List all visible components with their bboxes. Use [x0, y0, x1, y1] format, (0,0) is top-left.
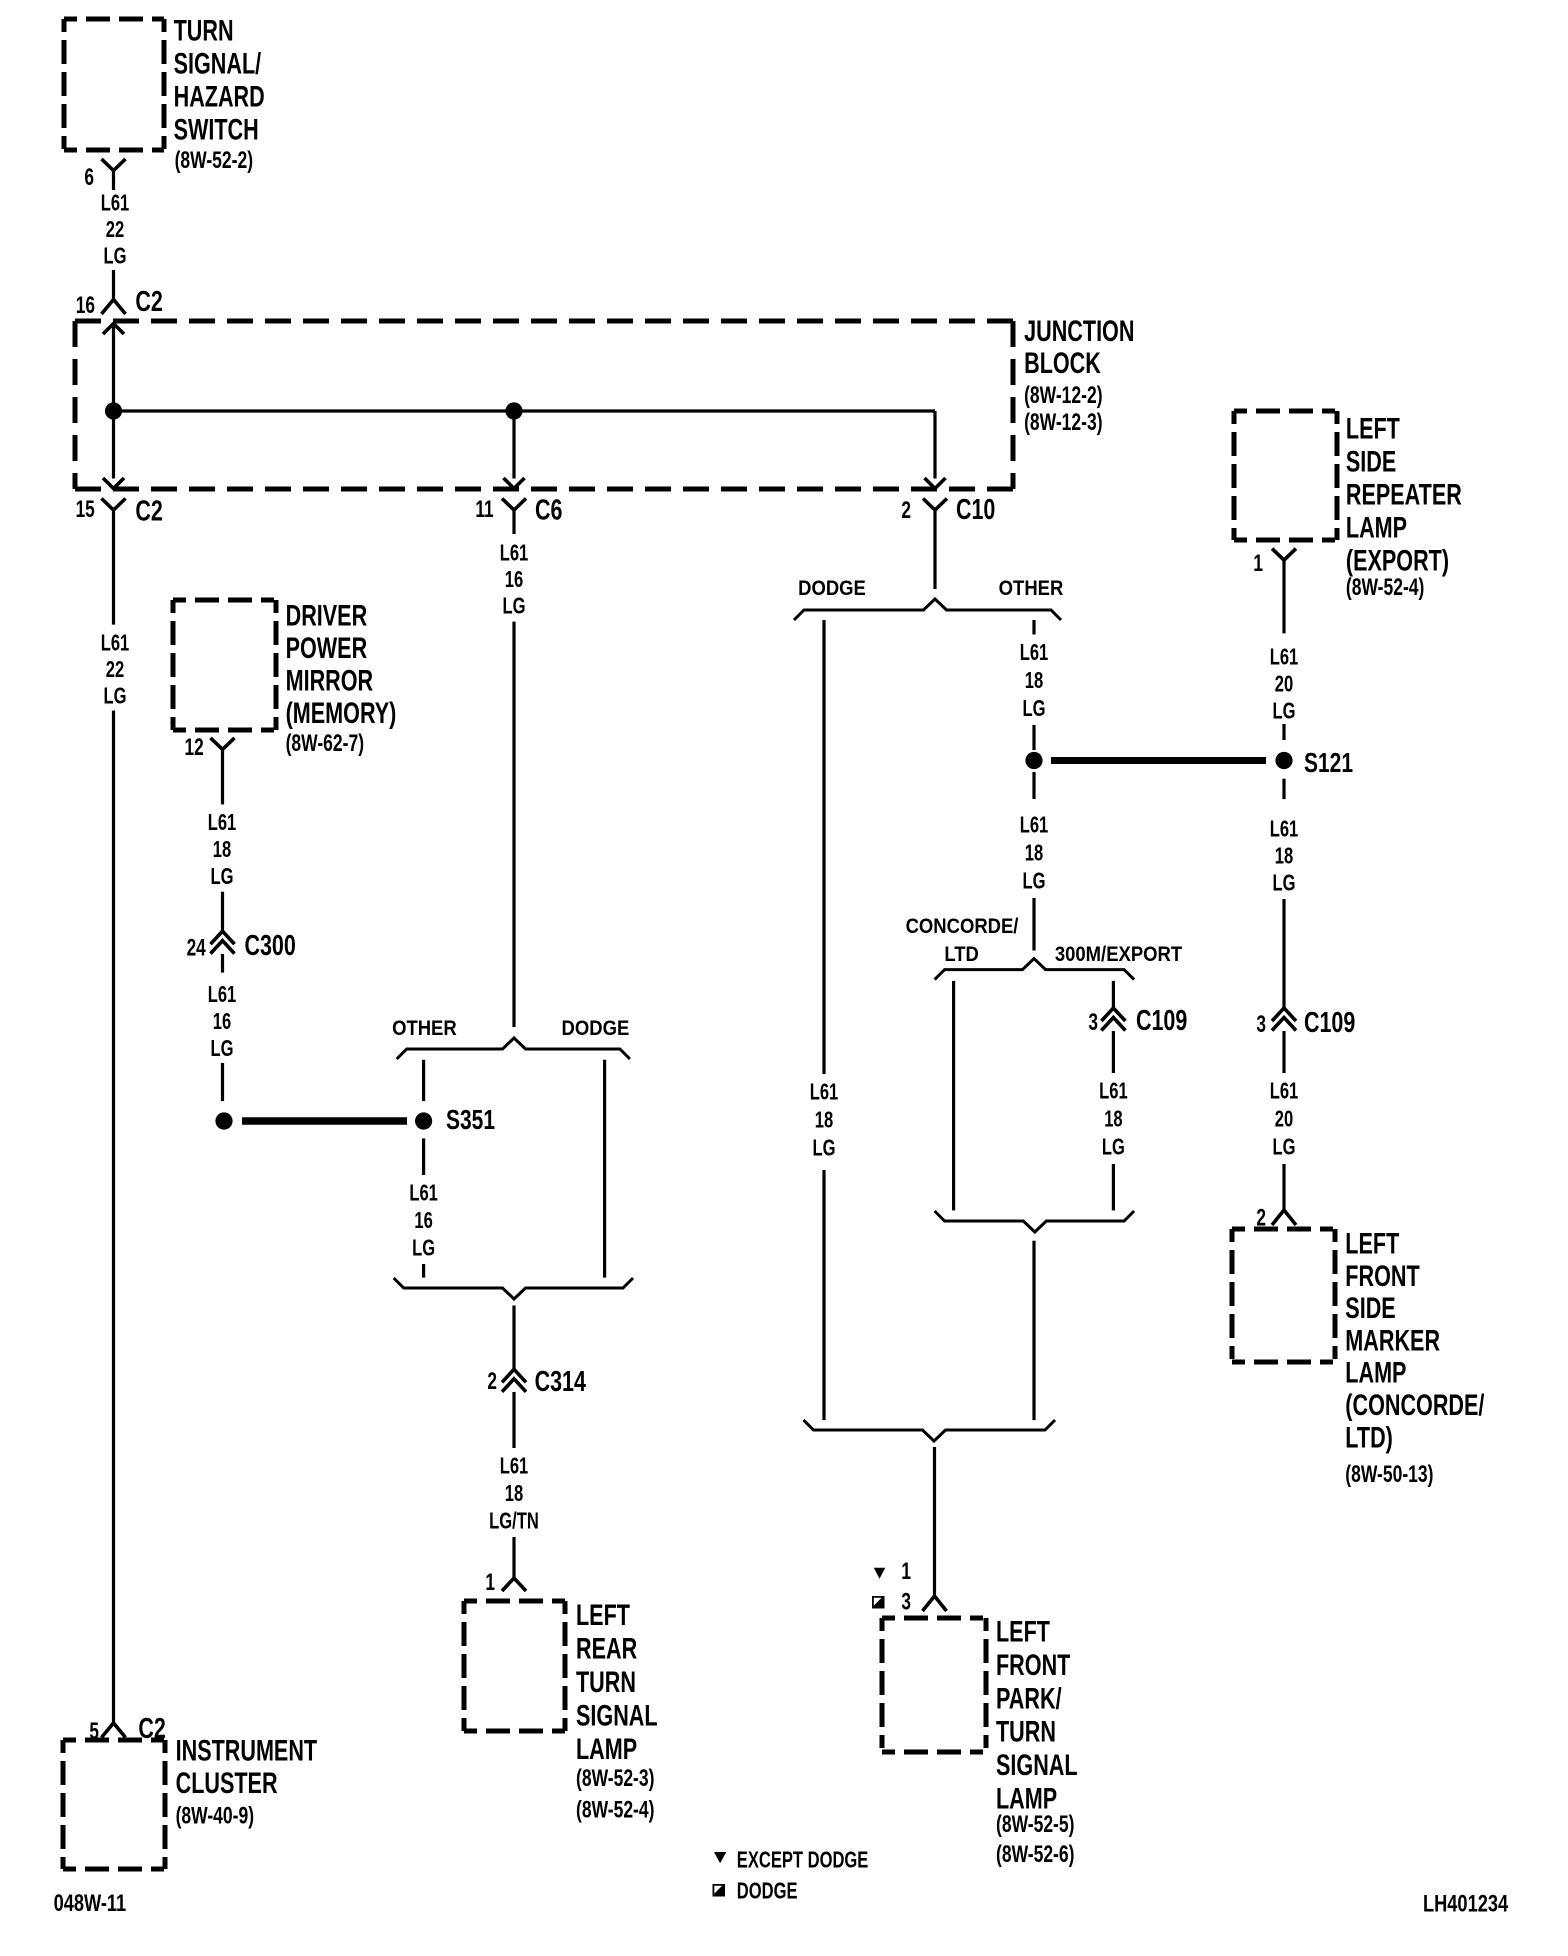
connector C314 pin 2 (double chevron)	[502, 1369, 526, 1382]
svg-text:15: 15	[76, 496, 96, 522]
connector C109 pin 3 left (double chevron)	[1101, 1008, 1125, 1021]
svg-text:L61: L61	[1270, 817, 1299, 842]
svg-text:3: 3	[1088, 1009, 1098, 1035]
svg-text:POWER: POWER	[286, 630, 368, 664]
svg-text:20: 20	[1275, 1107, 1293, 1132]
svg-text:(8W-40-9): (8W-40-9)	[176, 1803, 254, 1829]
wire label L61 18 LG/TN	[500, 1454, 529, 1479]
svg-text:REPEATER: REPEATER	[1346, 477, 1462, 511]
wire 300M/EXPORT stub to C109	[1112, 981, 1115, 1008]
wire label L61 16 LG (C300 to S351)	[208, 982, 237, 1007]
svg-text:(CONCORDE/: (CONCORDE/	[1345, 1387, 1484, 1421]
svg-text:20: 20	[1275, 672, 1293, 697]
split brace OTHER/DODGE (S351 branch)	[397, 1038, 630, 1059]
pin number 1 (park lamp)	[901, 1558, 911, 1584]
label JUNCTION BLOCK	[1024, 314, 1134, 348]
svg-text:OTHER: OTHER	[999, 577, 1064, 600]
svg-text:PARK/: PARK/	[996, 1681, 1062, 1715]
wire label L61 18 LG (DODGE branch)	[810, 1080, 839, 1105]
outer merge brace	[804, 1420, 1056, 1441]
pin number 5	[89, 1718, 99, 1744]
ref label (8W-52-5)	[996, 1812, 1074, 1838]
svg-text:L61: L61	[1270, 645, 1299, 670]
brand label LTD	[944, 943, 979, 966]
legend text DODGE	[737, 1879, 798, 1904]
label LEFT REAR TURN SIGNAL LAMP	[576, 1597, 630, 1631]
wire inner merge down	[1032, 1241, 1035, 1420]
junction block internal bus wire	[114, 409, 936, 412]
wire stub to inner merge	[1112, 1164, 1115, 1210]
svg-text:LG: LG	[211, 865, 234, 890]
component box: left front side marker lamp	[1232, 1229, 1335, 1362]
svg-text:C314: C314	[535, 1366, 587, 1398]
legend square (dodge)	[713, 1884, 726, 1897]
wire below C314	[512, 1392, 515, 1448]
svg-text:LEFT: LEFT	[576, 1597, 630, 1631]
wire OTHER stub below split	[1032, 620, 1035, 635]
wire stub above splice	[1032, 725, 1035, 750]
svg-text:SWITCH: SWITCH	[174, 112, 259, 146]
connector name C300	[245, 930, 296, 962]
svg-text:L61: L61	[1270, 1079, 1299, 1104]
svg-text:LAMP: LAMP	[1345, 1355, 1406, 1389]
svg-text:LEFT: LEFT	[996, 1614, 1050, 1648]
component box: left side repeater lamp	[1234, 411, 1337, 540]
brand label OTHER (S351 split)	[392, 1017, 457, 1040]
svg-text:LG: LG	[412, 1236, 435, 1261]
wire OTHER branch to S351	[422, 1060, 425, 1101]
svg-text:18: 18	[1104, 1107, 1122, 1132]
ref label (8W-52-4) rear	[576, 1797, 654, 1823]
brand label OTHER (C10 split)	[999, 577, 1064, 600]
svg-text:LG: LG	[1273, 699, 1296, 724]
svg-text:HAZARD: HAZARD	[174, 79, 265, 113]
connector pin 12 of mirror (Y symbol)	[211, 738, 235, 750]
wire from label to C300	[221, 892, 224, 931]
wire to left rear lamp	[512, 1537, 515, 1578]
component box: left rear turn signal lamp	[464, 1601, 565, 1731]
svg-text:L61: L61	[1099, 1079, 1128, 1104]
svg-text:DODGE: DODGE	[798, 577, 866, 600]
wire from label to connector C2 pin 16	[112, 270, 115, 300]
svg-text:(EXPORT): (EXPORT)	[1346, 543, 1449, 577]
svg-text:SIGNAL: SIGNAL	[576, 1698, 658, 1732]
svg-text:6: 6	[84, 164, 94, 190]
pin number 1 (repeater)	[1253, 550, 1263, 576]
svg-text:18: 18	[815, 1108, 833, 1133]
component box: turn signal / hazard switch	[64, 19, 164, 150]
split brace DODGE/OTHER (C10)	[794, 599, 1061, 620]
svg-text:CLUSTER: CLUSTER	[176, 1766, 278, 1800]
svg-text:L61: L61	[500, 1454, 529, 1479]
svg-text:REAR: REAR	[576, 1631, 637, 1665]
legend triangle (except dodge)	[714, 1852, 726, 1863]
svg-text:LTD: LTD	[944, 943, 979, 966]
connector name C10	[956, 494, 995, 526]
wire label L61 18 LG (below S121)	[1270, 817, 1299, 842]
svg-text:TURN: TURN	[174, 13, 234, 47]
drawing number LH401234	[1423, 1890, 1508, 1917]
svg-text:2: 2	[901, 497, 911, 523]
pin number 24	[187, 935, 207, 961]
svg-text:3: 3	[901, 1589, 911, 1615]
wire label L61 22 LG (switch to C2)	[101, 191, 130, 216]
connector C2 pin 16 (lambda into junction block)	[102, 300, 126, 315]
svg-text:12: 12	[184, 734, 203, 760]
wire down to instrument cluster	[112, 711, 115, 1724]
pin number 6	[84, 164, 94, 190]
svg-text:300M/EXPORT: 300M/EXPORT	[1055, 943, 1182, 966]
svg-text:LG/TN: LG/TN	[489, 1509, 539, 1534]
svg-text:18: 18	[505, 1481, 523, 1506]
svg-text:JUNCTION: JUNCTION	[1024, 314, 1134, 348]
svg-text:16: 16	[414, 1208, 432, 1233]
svg-text:LG: LG	[1023, 696, 1046, 721]
splice bus wire to S121	[1051, 757, 1266, 764]
svg-text:16: 16	[76, 292, 95, 318]
split brace CONCORDE-LTD/300M-EXPORT	[935, 959, 1135, 980]
ref label (8W-50-13)	[1345, 1462, 1433, 1488]
svg-text:DODGE: DODGE	[737, 1879, 798, 1904]
wire to CONCORDE split	[1032, 898, 1035, 951]
svg-text:(8W-12-3): (8W-12-3)	[1024, 409, 1102, 435]
svg-text:18: 18	[1025, 841, 1043, 866]
svg-text:LG: LG	[503, 594, 526, 619]
ref label (8W-52-2)	[175, 147, 253, 173]
wire label L61 20 LG (repeater)	[1270, 645, 1299, 670]
svg-text:C6: C6	[535, 494, 562, 526]
svg-text:INSTRUMENT: INSTRUMENT	[176, 1733, 318, 1767]
svg-text:EXCEPT DODGE: EXCEPT DODGE	[737, 1848, 869, 1873]
svg-text:11: 11	[475, 496, 494, 522]
wire DODGE branch lower	[822, 1170, 825, 1420]
connector name C2 (top)	[135, 286, 162, 318]
splice S351 node	[415, 1112, 432, 1129]
svg-text:16: 16	[505, 567, 523, 592]
svg-text:(8W-52-4): (8W-52-4)	[576, 1797, 654, 1823]
connector C300 pin 24 (double chevron)	[211, 931, 235, 944]
svg-text:L61: L61	[208, 982, 237, 1007]
connector C109 pin 3 right (double chevron)	[1272, 1008, 1296, 1021]
ref label (8W-52-6)	[996, 1842, 1074, 1868]
wire C6 branch down to split	[512, 622, 515, 1027]
label: TURN SIGNAL/HAZARD SWITCH	[174, 13, 234, 47]
ref label (8W-62-7)	[286, 731, 364, 757]
svg-text:DODGE: DODGE	[562, 1017, 630, 1040]
pin number 15	[76, 496, 96, 522]
svg-text:(8W-52-5): (8W-52-5)	[996, 1812, 1074, 1838]
wire below S351	[422, 1138, 425, 1175]
wire inside junction block down to C6	[512, 411, 515, 479]
wire from label to splice bus	[221, 1063, 224, 1101]
pin marker triangle (except dodge)	[874, 1568, 886, 1579]
svg-text:1: 1	[901, 1558, 911, 1584]
svg-text:OTHER: OTHER	[392, 1017, 457, 1040]
svg-text:24: 24	[187, 935, 207, 961]
svg-text:DRIVER: DRIVER	[286, 598, 368, 632]
connector lambda into park lamp	[923, 1596, 947, 1611]
svg-text:048W-11: 048W-11	[54, 1890, 127, 1917]
svg-text:FRONT: FRONT	[996, 1647, 1070, 1681]
svg-text:18: 18	[1275, 844, 1293, 869]
svg-text:SIDE: SIDE	[1345, 1291, 1395, 1325]
svg-text:C109: C109	[1136, 1005, 1187, 1037]
wire merge to C314	[512, 1306, 515, 1370]
connector C10 pin 2 (Y symbol)	[923, 499, 947, 511]
connector pin 6 of switch (Y symbol)	[102, 159, 126, 171]
svg-text:SIGNAL: SIGNAL	[996, 1748, 1078, 1782]
pin number 3 (park lamp)	[901, 1589, 911, 1615]
svg-text:C10: C10	[956, 494, 995, 526]
brand label DODGE (C10 split)	[798, 577, 866, 600]
ref label (8W-12-3)	[1024, 409, 1102, 435]
wire label L61 22 LG (to instrument cluster)	[101, 631, 130, 656]
wire DODGE branch upper	[822, 620, 825, 1074]
svg-text:1: 1	[485, 1569, 495, 1595]
svg-text:CONCORDE/: CONCORDE/	[906, 915, 1019, 938]
ref label (8W-40-9)	[176, 1803, 254, 1829]
svg-text:LAMP: LAMP	[1346, 510, 1407, 544]
svg-text:(8W-52-4): (8W-52-4)	[1346, 575, 1424, 601]
label INSTRUMENT CLUSTER	[176, 1733, 318, 1767]
svg-text:MARKER: MARKER	[1345, 1323, 1440, 1357]
wire DODGE branch (S351 split)	[603, 1060, 606, 1278]
svg-text:LG: LG	[1273, 1135, 1296, 1160]
pin number 2 (C314)	[487, 1368, 497, 1394]
svg-text:22: 22	[106, 657, 124, 682]
brand label DODGE (S351 split)	[562, 1017, 630, 1040]
wire below C109 right	[1282, 1031, 1285, 1073]
connector pin 1 (lambda into left rear lamp)	[502, 1578, 526, 1591]
legend text EXCEPT DODGE	[737, 1848, 869, 1873]
connector pin 1 of repeater (Y symbol)	[1272, 549, 1296, 561]
component box: driver power mirror (memory)	[173, 600, 276, 730]
svg-text:MIRROR: MIRROR	[286, 663, 374, 697]
svg-text:S121: S121	[1304, 748, 1353, 779]
svg-text:LG: LG	[1273, 871, 1296, 896]
wire CONCORDE/LTD branch	[952, 981, 955, 1211]
svg-text:(8W-12-2): (8W-12-2)	[1024, 383, 1102, 409]
splice S121 node	[1275, 752, 1292, 769]
pin number 12	[184, 734, 203, 760]
label LEFT FRONT PARK/TURN SIGNAL LAMP	[996, 1614, 1050, 1648]
sheet number 048W-11	[54, 1890, 127, 1917]
wire inside junction block down to C10	[933, 411, 936, 479]
arrow out of junction block at C6 pin 11	[504, 478, 525, 489]
splice bus wire to S351	[242, 1117, 407, 1125]
svg-text:(8W-52-2): (8W-52-2)	[175, 147, 253, 173]
pin number 1 (rear lamp)	[485, 1569, 495, 1595]
svg-text:2: 2	[487, 1368, 497, 1394]
wire below C109 left	[1112, 1031, 1115, 1073]
svg-text:3: 3	[1256, 1011, 1266, 1037]
svg-text:LTD): LTD)	[1345, 1420, 1393, 1454]
pin number 2 (C10)	[901, 497, 911, 523]
svg-text:(8W-62-7): (8W-62-7)	[286, 731, 364, 757]
wire label L61 18 LG (mirror to C300)	[208, 811, 237, 836]
inner merge brace	[935, 1211, 1135, 1232]
svg-text:TURN: TURN	[576, 1664, 636, 1698]
component box: instrument cluster	[63, 1740, 165, 1869]
svg-text:C2: C2	[135, 496, 162, 528]
wire label L61 16 LG (below S351)	[409, 1181, 438, 1206]
pin number 3 (C109 right)	[1256, 1011, 1266, 1037]
wire C2 pin15 down	[112, 534, 115, 625]
svg-text:LG: LG	[104, 244, 127, 269]
connector name C2 (pin 15)	[135, 496, 162, 528]
splice name S351	[446, 1105, 495, 1136]
svg-text:LEFT: LEFT	[1346, 411, 1400, 445]
svg-text:1: 1	[1253, 550, 1263, 576]
svg-text:S351: S351	[446, 1105, 495, 1136]
svg-text:16: 16	[213, 1009, 231, 1034]
connector name C314	[535, 1366, 587, 1398]
brand label CONCORDE/	[906, 915, 1019, 938]
arrow out of junction block at C10 pin 2	[925, 478, 946, 489]
pin number 16	[76, 292, 95, 318]
wire stub below S121	[1282, 779, 1285, 799]
label DRIVER POWER MIRROR (MEMORY)	[286, 598, 368, 632]
svg-text:(8W-52-3): (8W-52-3)	[576, 1765, 654, 1791]
component box: left front park/turn signal lamp	[882, 1618, 986, 1752]
wire label L61 18 LG (OTHER upper)	[1020, 640, 1049, 665]
svg-text:L61: L61	[101, 191, 130, 216]
connector C2 pin 5 (lambda into instrument cluster)	[102, 1723, 126, 1738]
merge brace (to C314)	[394, 1278, 633, 1299]
svg-text:SIDE: SIDE	[1346, 444, 1396, 478]
pin number 11	[475, 496, 494, 522]
connector name C109 (left)	[1136, 1005, 1187, 1037]
svg-text:LAMP: LAMP	[996, 1781, 1057, 1815]
wire to left front park lamp	[933, 1447, 936, 1596]
wire label L61 16 LG (C6 branch)	[500, 541, 529, 566]
arrow into junction block at pin 16	[103, 324, 124, 335]
wire label L61 18 LG (OTHER lower)	[1020, 813, 1049, 838]
arrow out of junction block at C2 pin 15	[103, 478, 124, 489]
wire C10 down to split	[933, 534, 936, 589]
pin number 2 (marker lamp)	[1256, 1205, 1266, 1231]
svg-text:L61: L61	[1020, 640, 1049, 665]
svg-text:FRONT: FRONT	[1345, 1258, 1419, 1292]
svg-text:L61: L61	[101, 631, 130, 656]
svg-text:18: 18	[1025, 668, 1043, 693]
junction node at C6 branch	[505, 402, 522, 419]
wire to marker lamp	[1282, 1164, 1285, 1210]
svg-text:18: 18	[213, 838, 231, 863]
brand label 300M/EXPORT	[1055, 943, 1182, 966]
wire S121 to C109 right	[1282, 899, 1285, 1008]
wire stub below splice	[1032, 772, 1035, 799]
svg-text:LG: LG	[1102, 1135, 1125, 1160]
svg-text:C300: C300	[245, 930, 296, 962]
connector C6 pin 11 (Y symbol)	[502, 499, 526, 511]
wire label L61 20 LG (to marker lamp)	[1270, 1079, 1299, 1104]
svg-text:L61: L61	[409, 1181, 438, 1206]
svg-text:LAMP: LAMP	[576, 1731, 637, 1765]
svg-text:(8W-52-6): (8W-52-6)	[996, 1842, 1074, 1868]
splice name S121	[1304, 748, 1353, 779]
wire label L61 18 LG (300M/EXPORT)	[1099, 1079, 1128, 1104]
wire stub above S121	[1282, 724, 1285, 740]
connector name C6	[535, 494, 562, 526]
svg-text:LG: LG	[104, 684, 127, 709]
label LEFT SIDE REPEATER LAMP (EXPORT)	[1346, 411, 1400, 445]
svg-text:LEFT: LEFT	[1345, 1226, 1399, 1260]
svg-text:TURN: TURN	[996, 1714, 1056, 1748]
svg-text:LH401234: LH401234	[1423, 1890, 1508, 1917]
svg-text:(MEMORY): (MEMORY)	[286, 695, 397, 729]
svg-text:L61: L61	[208, 811, 237, 836]
svg-text:LG: LG	[211, 1036, 234, 1061]
ref label (8W-12-2)	[1024, 383, 1102, 409]
connector name C109 (right)	[1304, 1007, 1355, 1039]
svg-text:L61: L61	[500, 541, 529, 566]
ref label (8W-52-3)	[576, 1765, 654, 1791]
svg-text:C2: C2	[135, 286, 162, 318]
wire stub to merge brace	[422, 1264, 425, 1278]
pin marker square (dodge)	[872, 1596, 885, 1609]
wire inside junction block (left vertical)	[112, 324, 115, 479]
splice node (OTHER branch)	[1025, 752, 1042, 769]
pin number 3 (C109 left)	[1088, 1009, 1098, 1035]
splice node left of S351	[215, 1112, 232, 1129]
svg-text:LG: LG	[1023, 869, 1046, 894]
svg-text:SIGNAL/: SIGNAL/	[174, 46, 262, 80]
ref label (8W-52-4) repeater	[1346, 575, 1424, 601]
junction block dashed box	[75, 321, 1013, 489]
connector pin 2 (lambda into marker lamp)	[1272, 1210, 1296, 1225]
connector name C2 (pin 5)	[138, 1713, 165, 1745]
connector C2 pin 15 (Y symbol)	[102, 499, 126, 511]
svg-text:22: 22	[106, 217, 124, 242]
wire below C300	[221, 954, 224, 973]
label LEFT FRONT SIDE MARKER LAMP (CONCORDE/LTD)	[1345, 1226, 1399, 1260]
svg-text:L61: L61	[810, 1080, 839, 1105]
svg-text:L61: L61	[1020, 813, 1049, 838]
svg-text:BLOCK: BLOCK	[1024, 346, 1101, 380]
svg-text:C109: C109	[1304, 1007, 1355, 1039]
junction node at left bus	[105, 402, 122, 419]
svg-text:LG: LG	[813, 1136, 836, 1161]
svg-text:(8W-50-13): (8W-50-13)	[1345, 1462, 1433, 1488]
